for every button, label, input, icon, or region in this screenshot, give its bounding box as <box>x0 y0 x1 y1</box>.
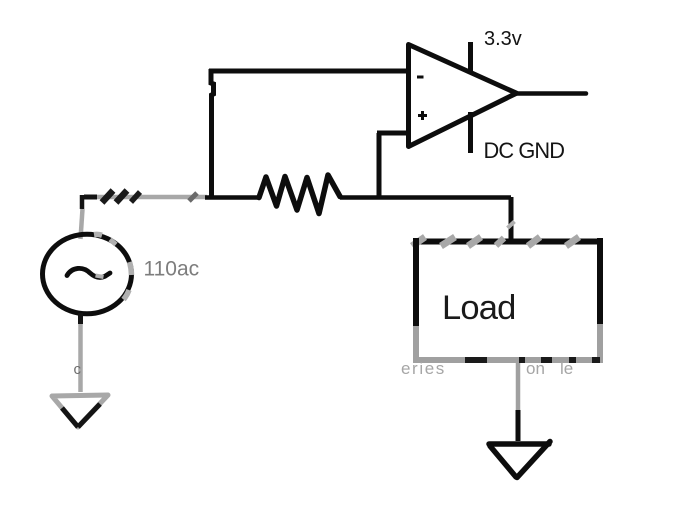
ground (source) <box>52 395 108 427</box>
wire plus input horizontal <box>377 131 408 136</box>
wire output <box>517 91 586 96</box>
wire plus input vertical <box>377 133 382 199</box>
wire below source (gray) <box>78 313 83 324</box>
wire source-top gray segment <box>84 191 207 203</box>
tilde <box>67 268 110 277</box>
wire source vertical stub <box>81 195 83 239</box>
right border <box>597 238 603 324</box>
svg-text:DC GND: DC GND <box>484 138 565 163</box>
pin V+ <box>468 42 473 73</box>
svg-text:le: le <box>560 359 573 378</box>
svg-text:c: c <box>74 361 82 378</box>
wire feedback top <box>209 69 407 74</box>
pin DC GND <box>468 112 473 153</box>
svg-text:eries: eries <box>401 359 446 378</box>
op-amp U1 <box>409 45 517 147</box>
minus label <box>417 76 424 79</box>
wire down to load box <box>509 197 514 240</box>
load box <box>412 237 603 363</box>
top border <box>413 239 603 245</box>
bottom border <box>413 357 603 363</box>
ground (load) <box>489 442 550 478</box>
plus label <box>418 111 427 120</box>
ac source V1 <box>43 234 132 314</box>
wire bottom main <box>205 195 260 200</box>
resistor R1 <box>259 175 340 214</box>
svg-text:on: on <box>526 359 545 378</box>
svg-text:3.3v: 3.3v <box>484 28 522 50</box>
watermark text fragments <box>401 359 573 378</box>
svg-text:Load: Load <box>442 289 516 327</box>
svg-text:110ac: 110ac <box>144 258 200 281</box>
wire resistor to load <box>340 195 511 200</box>
left border <box>413 238 419 326</box>
wire junction vertical (left) <box>211 69 214 197</box>
wire below load (gray then black) <box>516 363 521 441</box>
